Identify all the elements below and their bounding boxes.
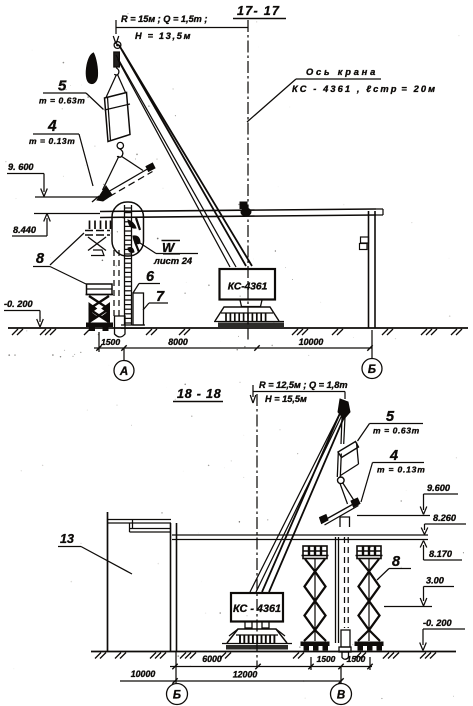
svg-text:18 - 18: 18 - 18 (177, 387, 222, 401)
svg-text:6: 6 (146, 269, 155, 285)
svg-text:КС - 4361 , ℓстр = 20м: КС - 4361 , ℓстр = 20м (292, 84, 437, 94)
svg-text:Б: Б (173, 690, 181, 702)
svg-text:4: 4 (47, 118, 57, 135)
svg-text:А: А (119, 366, 128, 378)
svg-text:10000: 10000 (131, 669, 156, 679)
svg-text:m = 0.13т: m = 0.13т (377, 465, 426, 475)
svg-text:10000: 10000 (299, 337, 324, 347)
svg-text:8: 8 (36, 251, 45, 267)
svg-text:-0. 200: -0. 200 (4, 299, 33, 309)
svg-text:1500: 1500 (101, 337, 120, 347)
svg-text:9. 600: 9. 600 (8, 162, 34, 172)
svg-text:m = 0.63т: m = 0.63т (373, 426, 420, 436)
svg-text:13: 13 (60, 532, 74, 546)
svg-text:m = 0.13т: m = 0.13т (29, 136, 75, 146)
svg-text:8000: 8000 (168, 337, 188, 347)
svg-text:Б: Б (368, 364, 376, 376)
svg-text:W: W (162, 240, 176, 255)
svg-text:17- 17: 17- 17 (237, 4, 280, 18)
svg-text:12000: 12000 (233, 670, 258, 680)
svg-text:R = 12,5м ; Q = 1,8т: R = 12,5м ; Q = 1,8т (259, 380, 348, 390)
svg-text:5: 5 (58, 78, 67, 95)
svg-text:КС - 4361: КС - 4361 (233, 603, 281, 615)
svg-text:9.600: 9.600 (427, 483, 451, 493)
svg-text:8.440: 8.440 (13, 225, 37, 235)
svg-text:КС-4361: КС-4361 (228, 282, 268, 293)
svg-text:3.00: 3.00 (426, 576, 445, 586)
svg-text:Н = 13,5м: Н = 13,5м (135, 31, 192, 41)
svg-text:8.260: 8.260 (433, 513, 457, 523)
svg-text:Н = 15,5м: Н = 15,5м (265, 394, 307, 404)
svg-text:лист 24: лист 24 (153, 255, 193, 266)
svg-text:m = 0.63т: m = 0.63т (39, 96, 85, 106)
svg-text:6000: 6000 (202, 654, 222, 664)
svg-text:8: 8 (392, 554, 401, 570)
svg-text:4: 4 (389, 448, 398, 464)
svg-text:В: В (337, 690, 345, 702)
svg-text:8.170: 8.170 (429, 549, 453, 559)
svg-text:Ось крана: Ось крана (306, 67, 378, 77)
svg-text:R = 15м ; Q = 1,5т ;: R = 15м ; Q = 1,5т ; (121, 14, 207, 24)
svg-text:1500: 1500 (317, 654, 336, 664)
svg-text:1500: 1500 (347, 654, 366, 664)
svg-text:5: 5 (386, 409, 395, 425)
svg-text:-0. 200: -0. 200 (423, 618, 452, 628)
